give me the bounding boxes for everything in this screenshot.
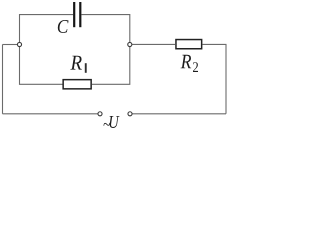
- label C: [58, 20, 69, 33]
- wire: capacitor branch right, across and down to node: [82, 15, 130, 43]
- wire: capacitor branch left, node up and across: [20, 15, 74, 43]
- resistor R1: [63, 80, 91, 89]
- wire: left outer vertical: [2, 45, 4, 114]
- label R2: [181, 55, 198, 72]
- wire: R1 branch right, across and up to node: [92, 47, 130, 85]
- terminal: right source terminal: [128, 112, 132, 116]
- label R1: [70, 56, 86, 73]
- label ~U, AC source: [104, 116, 120, 128]
- wire: left node to outer left horizontal: [3, 44, 18, 46]
- wire: R2 to right outer corner and down: [203, 44, 227, 113]
- wire: bottom left horizontal to terminal: [3, 113, 98, 115]
- wire: right node to R2: [132, 43, 175, 45]
- terminal: left source terminal: [98, 112, 102, 116]
- resistor R2: [176, 40, 202, 49]
- node: left junction: [17, 42, 21, 46]
- wire: bottom right horizontal to terminal: [132, 113, 226, 115]
- capacitor C plates: [74, 2, 80, 27]
- node: right junction: [128, 42, 132, 46]
- wire: R1 branch left, node down and across: [20, 47, 63, 85]
